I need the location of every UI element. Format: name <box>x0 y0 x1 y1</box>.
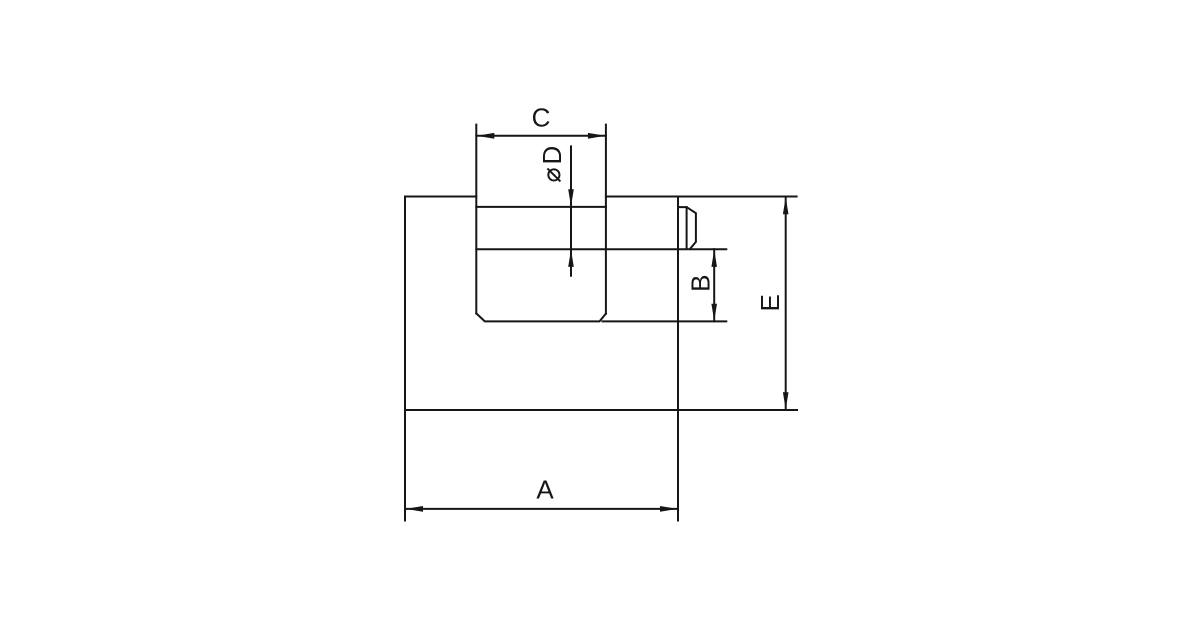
shackle bottom edge with chamfers <box>476 313 606 321</box>
shackle hole top line <box>476 206 606 208</box>
dimension line E <box>785 197 787 411</box>
locking pin outline <box>678 207 696 249</box>
shackle right side + C extension line <box>605 125 607 314</box>
diameter symbol of label D <box>547 168 560 181</box>
arrowhead D top <box>568 189 574 206</box>
dimension line C <box>476 135 606 137</box>
svg-text:C: C <box>532 103 551 133</box>
body top edge right segment + E top extension line <box>606 196 797 198</box>
locking pin inner edge <box>686 207 688 249</box>
arrowhead A right <box>660 506 678 512</box>
dimension line D <box>570 146 572 275</box>
body left edge + A extension line <box>404 197 406 521</box>
svg-text:D: D <box>537 146 567 165</box>
body top edge left segment <box>405 196 476 198</box>
arrowhead E top <box>783 197 789 214</box>
arrowhead C right <box>588 133 606 139</box>
arrowhead D bottom <box>568 250 574 267</box>
dimension line A <box>405 508 678 510</box>
arrowhead A left <box>406 506 424 512</box>
body right edge + A extension line <box>677 197 679 521</box>
arrowhead B top <box>711 250 717 267</box>
shackle left side + C extension line <box>475 125 477 314</box>
body bottom edge + E bottom extension line <box>405 409 797 411</box>
dimension line B <box>713 249 715 321</box>
svg-text:A: A <box>536 475 554 505</box>
arrowhead E bottom <box>783 392 789 409</box>
arrowhead C left <box>477 133 495 139</box>
svg-text:E: E <box>755 294 785 311</box>
shackle hole bottom line + B top extension line <box>476 248 726 250</box>
arrowhead B bottom <box>711 304 717 321</box>
svg-text:B: B <box>686 275 716 292</box>
B bottom extension line <box>603 320 727 322</box>
